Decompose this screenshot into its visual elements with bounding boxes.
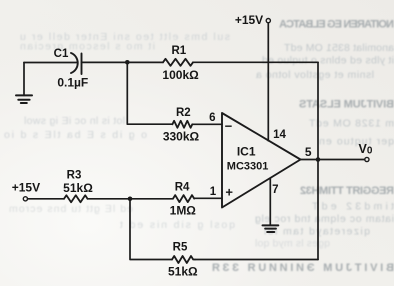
resistor R1 xyxy=(163,59,193,66)
svg-text:+15V: +15V xyxy=(12,181,40,195)
svg-text:330kΩ: 330kΩ xyxy=(163,130,200,144)
svg-text:R2: R2 xyxy=(176,107,191,119)
wire R2 to pin 6 xyxy=(192,123,222,125)
+15V stem (pin 14) xyxy=(267,23,269,141)
svg-text:51kΩ: 51kΩ xyxy=(168,265,198,279)
svg-text:REGGIЯT TTIMH32: REGGIЯT TTIMH32 xyxy=(300,185,394,197)
ground (left, below C1) xyxy=(23,63,25,96)
svg-text:R1: R1 xyxy=(171,45,186,57)
svg-text:R3: R3 xyxy=(67,170,82,182)
svg-text:C1: C1 xyxy=(54,48,69,60)
junction node output xyxy=(316,157,321,162)
svg-text:timd32 edT: timd32 edT xyxy=(311,201,394,213)
svg-text:ВІVІTJUM ЭИІИИUЯ ЗЗЯ: ВІVІTJUM ЭИІИИUЯ ЗЗЯ xyxy=(212,262,394,274)
svg-text:m 1328 OM edT: m 1328 OM edT xyxy=(308,118,394,130)
svg-text:R5: R5 xyxy=(173,241,188,253)
svg-text:qer tuqtuo en: qer tuqtuo en xyxy=(319,136,394,148)
+15V left terminal xyxy=(23,197,27,201)
svg-text:+: + xyxy=(225,185,233,200)
wire R4 to pin 1 xyxy=(194,197,222,199)
svg-text:lot is ln oc iE ig swol: lot is ln oc iE ig swol xyxy=(24,115,125,127)
wire ground to C1 xyxy=(24,62,77,64)
wire C1 to node xyxy=(82,61,164,63)
resistor R3 xyxy=(64,195,88,202)
lower branch to R5 xyxy=(130,199,172,260)
pin 7 wire xyxy=(269,178,271,225)
resistor R4 xyxy=(173,195,194,202)
svg-text:100kΩ: 100kΩ xyxy=(162,68,199,82)
op-amp triangle xyxy=(222,113,301,208)
ground (pin 7) xyxy=(263,224,279,226)
svg-text:lsnim et egstlov lotno a: lsnim et egstlov lotno a xyxy=(256,69,374,81)
svg-text:IC1: IC1 xyxy=(237,145,256,159)
wire to R3 xyxy=(28,198,64,200)
svg-text:it mo s lescom grecian: it mo s lescom grecian xyxy=(20,41,155,53)
junction node R3/R4/R5 xyxy=(128,197,133,202)
svg-text:iatam oc elqma tnd roc elg: iatam oc elqma tnd roc elg xyxy=(255,213,394,225)
svg-text:51kΩ: 51kΩ xyxy=(63,181,93,195)
svg-text:anomilat 8351 OM edT: anomilat 8351 OM edT xyxy=(283,42,394,54)
svg-text:+15V: +15V xyxy=(235,13,263,27)
wire node down to R2 xyxy=(127,62,172,124)
resistor R5 xyxy=(172,256,195,263)
+15V terminal circle xyxy=(266,19,270,23)
svg-text:MC3301: MC3301 xyxy=(227,161,269,173)
svg-text:7: 7 xyxy=(272,184,278,196)
feedback vertical rail xyxy=(317,62,319,259)
svg-text:0.1µF: 0.1µF xyxy=(57,75,88,89)
svg-text:−: − xyxy=(225,119,233,134)
svg-text:it ylbs ed eblns o tuqluo ed: it ylbs ed eblns o tuqluo ed xyxy=(262,55,394,67)
junction node at C1/R1/R2 xyxy=(125,60,130,65)
svg-text:ed lE gtt tu bns ecrom: ed lE gtt tu bns ecrom xyxy=(9,203,133,215)
svg-text:qizeretayd tam iol: qizeretayd tam iol xyxy=(264,226,370,238)
svg-text:o g ib s E ba tlE s d io: o g ib s E ba tlE s d io xyxy=(4,129,147,141)
svg-text:1MΩ: 1MΩ xyxy=(170,204,197,218)
wire R3 to R4 xyxy=(88,198,174,200)
capacitor C1 xyxy=(71,53,78,73)
Vo terminal xyxy=(365,157,369,161)
svg-text:ВІVІТJUM ELSATS: ВІVІТJUM ELSATS xyxy=(299,99,394,111)
svg-text:1: 1 xyxy=(210,186,217,198)
svg-text:NOITAREN EG ELBATCA: NOITAREN EG ELBATCA xyxy=(279,19,394,31)
output wire xyxy=(301,159,365,161)
svg-text:R4: R4 xyxy=(175,181,190,193)
svg-text:6: 6 xyxy=(209,112,215,124)
resistor R2 xyxy=(172,121,192,128)
svg-text:14: 14 xyxy=(273,129,286,141)
svg-text:5: 5 xyxy=(305,145,312,159)
wire R1 to feedback rail xyxy=(193,61,318,63)
wire R5 to rail xyxy=(195,259,318,261)
